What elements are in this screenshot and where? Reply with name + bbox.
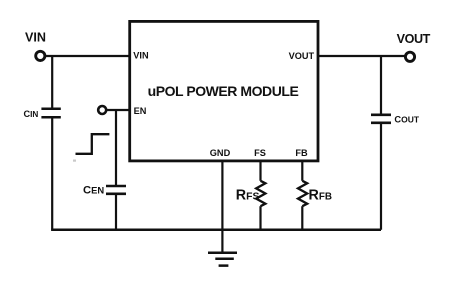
module U1 uPOL POWER MODULE box	[130, 21, 318, 161]
svg-text:FB: FB	[295, 148, 308, 158]
wire VIN terminal to module VIN pin	[45, 55, 129, 57]
wire COUT branch lower	[380, 123, 382, 230]
svg-text:VIN: VIN	[133, 50, 149, 60]
svg-text:VIN: VIN	[25, 31, 46, 45]
wire module VOUT pin to VOUT terminal	[318, 55, 405, 57]
resistor RFS zigzag	[256, 181, 265, 206]
svg-text:CIN: CIN	[24, 109, 39, 119]
svg-text:uPOL POWER MODULE: uPOL POWER MODULE	[148, 83, 299, 99]
wire FS pin lower	[259, 206, 261, 230]
enable step waveform symbol	[76, 134, 110, 154]
svg-text:VOUT: VOUT	[289, 51, 315, 61]
resistor RFB zigzag	[298, 181, 307, 206]
svg-text:COUT: COUT	[394, 115, 419, 125]
svg-text:GND: GND	[210, 148, 231, 158]
wire bottom ground rail	[51, 229, 381, 232]
svg-text:CEN: CEN	[83, 184, 104, 196]
wire CEN branch upper	[115, 110, 117, 186]
node VIN terminal circle	[36, 51, 45, 60]
wire COUT branch upper	[380, 56, 382, 115]
wire FB pin lower	[301, 206, 303, 230]
capacitor CIN	[41, 109, 60, 117]
wire GND pin to ground symbol	[221, 160, 223, 252]
capacitor COUT	[371, 115, 391, 123]
wire EN terminal to module EN pin	[106, 109, 129, 111]
stray faint mark artifact	[73, 160, 76, 162]
svg-text:FS: FS	[254, 148, 266, 158]
svg-text:RFS: RFS	[236, 187, 260, 203]
wire FS pin upper	[259, 160, 261, 181]
svg-text:EN: EN	[134, 106, 147, 116]
wire FB pin upper	[301, 160, 303, 181]
ground symbol	[208, 253, 237, 266]
svg-text:VOUT: VOUT	[397, 32, 431, 46]
node VOUT terminal circle	[405, 52, 414, 61]
node EN terminal circle	[98, 106, 106, 114]
capacitor CEN	[106, 186, 126, 194]
svg-text:RFB: RFB	[309, 187, 333, 203]
wire CEN branch lower	[115, 194, 117, 230]
wire CIN branch upper	[51, 56, 53, 109]
wire CIN branch lower	[51, 117, 53, 230]
